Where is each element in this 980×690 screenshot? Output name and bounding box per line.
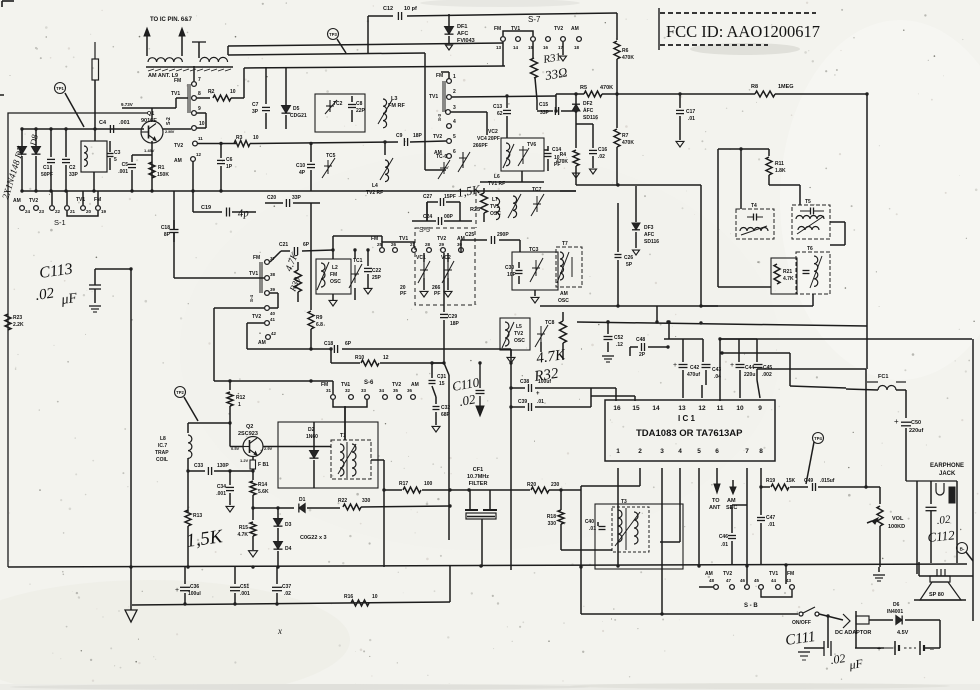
transformer T7 AM OSC (556, 247, 582, 287)
wire S5-25 up (381, 236, 383, 242)
svg-text:6: 6 (715, 448, 719, 455)
svg-text:OSC: OSC (490, 211, 501, 217)
capacitor C45 .002 (756, 339, 758, 362)
switch S-6 terminal 33 (365, 395, 370, 400)
switch S-7 terminal 18 (577, 37, 582, 42)
switch S-6 terminal 35 (397, 395, 402, 400)
switch S-5 terminal 27 (412, 248, 417, 253)
resistor R17 100 (384, 489, 402, 491)
svg-text:6.8: 6.8 (316, 322, 323, 328)
svg-text:+: + (536, 391, 540, 397)
svg-text:9016E: 9016E (141, 118, 157, 124)
wire y306 (540, 305, 813, 307)
svg-text:ANT: ANT (709, 505, 721, 511)
capacitor C18 8P (173, 220, 175, 230)
svg-text:L6: L6 (494, 174, 500, 180)
svg-text:C20: C20 (267, 195, 276, 201)
svg-text:TO: TO (712, 498, 720, 504)
wire x432 from R10 (432, 362, 444, 364)
terminal 11 TV2 (193, 141, 198, 146)
capacitor C10 4P (310, 144, 312, 163)
svg-text:S-4: S-4 (249, 295, 254, 303)
capacitor C47 .01 (760, 487, 762, 515)
svg-text:AFC: AFC (457, 31, 468, 37)
svg-text:DC ADAPTOR: DC ADAPTOR (835, 630, 871, 636)
svg-text:C34: C34 (217, 484, 226, 490)
telescopic antenna (94, 42, 96, 59)
svg-text:TV2 RF: TV2 RF (366, 190, 383, 196)
svg-text:R6: R6 (622, 48, 629, 54)
svg-text:OSC: OSC (330, 279, 341, 285)
svg-text:L5: L5 (516, 324, 522, 330)
capacitor C19 4p (226, 208, 228, 217)
wire R2 up to line C (243, 68, 245, 98)
svg-text:9: 9 (198, 106, 201, 112)
IC1 TDA1083 OR TA7613AP (605, 400, 775, 461)
svg-text:42: 42 (271, 331, 277, 336)
svg-text:220uf: 220uf (909, 428, 924, 434)
wire y185 segment (576, 184, 701, 186)
svg-text:7: 7 (198, 77, 201, 83)
svg-text:VC2: VC2 (488, 129, 498, 135)
svg-text:C18: C18 (161, 225, 170, 231)
wire pin8 node (760, 468, 762, 487)
wire FC1 feed (790, 386, 846, 388)
svg-text:15: 15 (439, 381, 445, 387)
svg-text:C7: C7 (252, 102, 259, 108)
arrow AM SEC (732, 480, 734, 487)
ferrite bead FB1 (250, 460, 256, 469)
switch S-5 bracket (382, 242, 414, 247)
svg-text:C18: C18 (324, 341, 333, 347)
resistor R30 handwritten 4.7K (295, 270, 302, 292)
node input bus (22, 128, 144, 130)
svg-text:1: 1 (453, 74, 456, 80)
svg-text:C31: C31 (437, 374, 446, 380)
resistor R13 (185, 510, 191, 526)
svg-text:.01: .01 (537, 399, 544, 405)
resistor R12 1 (229, 381, 231, 390)
wire pin7 down to S8-46 (746, 468, 748, 584)
capacitor C31 15P (431, 363, 433, 378)
switch S-5 terminal 28 (427, 248, 432, 253)
switch S-8 terminal 46 (745, 585, 750, 590)
wire S4-38 left (174, 277, 264, 279)
wire TP3 leader (337, 39, 346, 53)
svg-text:AFC: AFC (583, 108, 594, 114)
svg-text:C30: C30 (505, 265, 514, 271)
switch S-7 terminal 15 (531, 37, 536, 42)
diode D2 1N60 (313, 422, 315, 450)
wire Q1 emitter resistor R1 (151, 141, 153, 191)
svg-text:2: 2 (453, 89, 456, 95)
svg-text:12: 12 (196, 152, 202, 157)
wire Q2 collector right (263, 446, 331, 448)
svg-text:5: 5 (114, 157, 117, 163)
svg-text:C0G22 x 3: C0G22 x 3 (300, 535, 327, 541)
svg-text:DF3: DF3 (644, 225, 654, 231)
wire pin3 down (661, 468, 663, 614)
svg-text:D1: D1 (299, 497, 306, 503)
svg-text:SD116: SD116 (644, 239, 659, 245)
svg-text:μF: μF (847, 656, 864, 672)
diode DF2 AFC SD116 (574, 109, 577, 112)
svg-text:TC3: TC3 (529, 247, 539, 253)
svg-text:20PF: 20PF (488, 136, 500, 142)
svg-text:23: 23 (39, 209, 45, 214)
svg-text:100: 100 (424, 481, 433, 487)
switch S-2 terminal 9 (192, 111, 197, 116)
scan edge tick (0, 94, 4, 96)
svg-text:11: 11 (198, 136, 203, 141)
wire switch to plug (819, 614, 843, 620)
resistor R18 330 (558, 510, 564, 524)
svg-text:330: 330 (362, 498, 371, 504)
svg-text:33P: 33P (292, 195, 302, 201)
wire line B (228, 53, 425, 55)
svg-text:IN4001: IN4001 (887, 609, 903, 615)
svg-text:TV1: TV1 (490, 204, 499, 210)
svg-text:C2: C2 (69, 165, 76, 171)
svg-text:R20: R20 (527, 482, 536, 488)
switch S-7 terminal 17 (561, 37, 566, 42)
right border x972 (972, 339, 974, 621)
svg-text:C52: C52 (614, 335, 623, 341)
svg-text:C40: C40 (585, 519, 594, 525)
resistor R6 470K (616, 13, 618, 40)
ground right (878, 567, 880, 572)
svg-text:C48: C48 (636, 337, 645, 343)
svg-text:2: 2 (638, 448, 642, 455)
switch S-3 terminal 3 (446, 110, 451, 115)
svg-text:C37: C37 (282, 584, 291, 590)
svg-text:C27: C27 (423, 194, 432, 200)
resistor R9 6.8 (310, 203, 312, 310)
resistor R7 470K (616, 94, 618, 128)
resistor R3 10 / capacitor C9 18P (197, 143, 236, 145)
trimmer TC3 (512, 252, 558, 290)
svg-text:I C 1: I C 1 (678, 414, 695, 423)
capacitor C32 68P (435, 397, 437, 404)
svg-text:C39: C39 (518, 399, 527, 405)
tuner box TV6 (501, 138, 544, 171)
resistor R4 470K (575, 120, 577, 148)
resistor R25 handwritten 1.5K (481, 193, 488, 213)
svg-text:9.73V: 9.73V (121, 102, 133, 107)
svg-text:+: + (877, 646, 881, 653)
earphone jack body (906, 480, 957, 482)
svg-text:D2: D2 (308, 427, 315, 433)
svg-text:.01: .01 (721, 542, 728, 548)
capacitor C15 33P (536, 100, 538, 110)
resistor R5 470K (556, 93, 584, 95)
svg-text:EARPHONE: EARPHONE (930, 463, 964, 469)
svg-text:10: 10 (253, 135, 259, 141)
svg-text:100uf: 100uf (538, 379, 551, 385)
svg-text:PF: PF (434, 291, 440, 297)
switch S-4 terminal 38 (265, 276, 270, 281)
svg-text:TV1: TV1 (399, 236, 408, 242)
svg-text:TRAP: TRAP (155, 450, 169, 456)
svg-text:x: x (277, 626, 282, 636)
capacitor C46 .01 (731, 505, 733, 533)
svg-text:100ul: 100ul (188, 591, 201, 597)
svg-text:AM: AM (560, 291, 568, 297)
wire S4-39 to 40 (270, 292, 278, 294)
resistor R19 15K (761, 486, 770, 488)
svg-text:FCC ID: AAO1200617: FCC ID: AAO1200617 (666, 22, 820, 41)
transformer T6 (796, 252, 830, 294)
svg-text:28: 28 (425, 242, 431, 247)
svg-text:+: + (894, 417, 899, 426)
svg-text:AM: AM (705, 571, 713, 577)
svg-text:T5: T5 (805, 199, 811, 205)
switch S-4 terminal 40 (265, 306, 270, 311)
transformer T4 (736, 209, 774, 239)
svg-text:4P: 4P (299, 170, 306, 176)
varicap VC2 266PF (447, 262, 449, 278)
svg-text:TP2: TP2 (176, 390, 184, 395)
svg-text:TV1: TV1 (769, 571, 778, 577)
svg-text:T3: T3 (621, 499, 627, 505)
resistor R32 handwritten 4.7K (560, 321, 567, 343)
svg-text:C36: C36 (190, 584, 199, 590)
svg-text:.02: .02 (458, 391, 477, 409)
svg-text:.001: .001 (119, 120, 130, 126)
svg-text:44: 44 (771, 578, 777, 583)
svg-text:S-3: S-3 (437, 114, 442, 122)
coil L3 FM RF (383, 99, 387, 128)
FCC ID label box (658, 8, 660, 50)
svg-text:R17: R17 (399, 481, 408, 487)
svg-text:2SC923: 2SC923 (238, 431, 258, 437)
svg-text:AM: AM (258, 340, 266, 346)
svg-text:D8: D8 (28, 133, 40, 147)
transformer T1 (331, 440, 371, 479)
coil L4 TV2 RF (385, 160, 389, 182)
switch S-7 terminal 13 (501, 37, 506, 42)
switch S-4 terminal 37 (265, 260, 270, 265)
resistor R10 12 (331, 362, 360, 364)
wire T4 top (740, 149, 742, 209)
resistor R31 handwritten 33ohm (532, 42, 534, 58)
svg-text:L4: L4 (372, 183, 378, 189)
svg-text:TV1: TV1 (171, 91, 180, 97)
switch S-3 terminal 6 (447, 154, 452, 159)
svg-text:10: 10 (372, 594, 378, 600)
test point TP2 (175, 387, 186, 398)
capacitor C51 .001 (234, 567, 236, 584)
diode D7 (21, 129, 23, 146)
svg-text:18P: 18P (413, 133, 423, 139)
capacitor C3 5 (107, 153, 114, 155)
svg-text:R7: R7 (622, 133, 629, 139)
svg-text:35: 35 (393, 388, 399, 393)
svg-text:R1: R1 (158, 165, 165, 171)
svg-text:9: 9 (758, 405, 762, 412)
capacitor C17 .01 (679, 94, 681, 108)
svg-text:29: 29 (439, 242, 445, 247)
svg-text:10P: 10P (507, 272, 517, 278)
svg-text:.12: .12 (616, 342, 623, 348)
svg-text:R2: R2 (208, 89, 215, 95)
svg-text:4: 4 (678, 448, 682, 455)
svg-text:C3: C3 (114, 150, 121, 156)
svg-text:6P: 6P (303, 242, 310, 248)
antenna L9 lead arrows (146, 36, 148, 56)
capacitor C48 2P (630, 346, 638, 348)
switch S-3 terminal 1 (447, 79, 452, 84)
svg-text:S-2: S-2 (166, 117, 172, 125)
wire antenna to node A (95, 268, 131, 270)
switch S-1 bracket (67, 211, 98, 216)
wire y353 (722, 352, 790, 354)
resistor R15 4.7K (252, 508, 254, 520)
wire x449 down (444, 363, 449, 375)
svg-text:330: 330 (548, 521, 557, 527)
switch S-5 terminal 29 (441, 248, 446, 253)
capacitor C50 220uf (905, 390, 907, 418)
svg-text:15K: 15K (786, 478, 796, 484)
wire pin16 up (615, 388, 617, 401)
svg-text:41: 41 (270, 317, 276, 322)
switch S-2 terminal 7 (192, 82, 197, 87)
svg-text:R25: R25 (470, 207, 480, 213)
wire S4-40 left (214, 307, 264, 309)
svg-text:R12: R12 (236, 395, 245, 401)
svg-text:TV2: TV2 (174, 143, 183, 149)
svg-text:TV2: TV2 (29, 198, 38, 204)
wire Q1 collector (151, 108, 153, 121)
svg-text:130P: 130P (217, 463, 229, 469)
svg-text:AM: AM (174, 158, 182, 164)
svg-text:TDA1083 OR TA7613AP: TDA1083 OR TA7613AP (636, 428, 743, 439)
capacitor C42 470uF (682, 339, 684, 362)
svg-text:C51: C51 (240, 584, 249, 590)
svg-text:18: 18 (574, 45, 580, 50)
svg-text:R14: R14 (258, 482, 267, 488)
svg-text:45: 45 (754, 578, 760, 583)
svg-text:33P: 33P (540, 110, 550, 116)
capacitor C38 100uf (511, 387, 525, 389)
svg-text:.01: .01 (768, 522, 775, 528)
svg-text:R15: R15 (239, 525, 248, 531)
svg-text:38: 38 (270, 272, 276, 277)
svg-text:AM: AM (13, 198, 21, 204)
svg-text:L3: L3 (391, 96, 397, 102)
capacitor C112 .02 (930, 481, 932, 504)
svg-text:FM RF: FM RF (388, 103, 405, 109)
svg-text:8: 8 (198, 91, 201, 97)
coil L7 TV1 OSC (496, 198, 500, 220)
capacitor C37 .02 (276, 567, 278, 584)
svg-text:+: + (175, 587, 179, 594)
svg-text:24: 24 (25, 209, 31, 214)
svg-text:R3: R3 (236, 135, 243, 141)
svg-text:1N60: 1N60 (306, 434, 318, 440)
resistor R23 2.2K (5, 314, 11, 330)
switch S-1 terminal 23 (34, 206, 39, 211)
DC adaptor plug (843, 614, 850, 628)
svg-text:VC4: VC4 (477, 136, 487, 142)
svg-text:5P: 5P (626, 262, 633, 268)
svg-text:F B1: F B1 (258, 462, 269, 468)
capacitor C1 50PF (50, 129, 52, 157)
svg-text:TC-6: TC-6 (436, 154, 447, 160)
svg-text:S-6: S-6 (364, 380, 374, 386)
svg-text:FM: FM (253, 255, 260, 261)
svg-text:4: 4 (453, 119, 456, 125)
wire x701 down (700, 185, 702, 306)
wire pin5 down (698, 468, 700, 565)
capacitor C12 10pf (368, 15, 393, 17)
svg-text:.015uf: .015uf (820, 478, 835, 484)
svg-text:20: 20 (86, 209, 92, 214)
bus bottom y567 (8, 564, 967, 567)
switch S-1 terminal 22 (50, 206, 55, 211)
svg-text:16: 16 (543, 45, 549, 50)
svg-text:R11: R11 (775, 161, 784, 167)
resistor R8 1MEG (617, 93, 755, 95)
switch S-3 terminal 4 (447, 124, 452, 129)
wire T1 right (371, 459, 384, 461)
AM antenna coil L9 winding 1 (148, 58, 182, 62)
svg-text:TV1: TV1 (76, 197, 85, 203)
svg-text:R9: R9 (316, 315, 323, 321)
svg-text:FM: FM (321, 382, 328, 388)
svg-text:FM: FM (174, 78, 181, 84)
svg-text:B-: B- (960, 547, 965, 552)
capacitor C40 .01 (597, 522, 599, 526)
capacitor C7 3P (265, 67, 267, 104)
capacitor C39 .01 (511, 406, 525, 408)
svg-text:–: – (930, 646, 934, 653)
svg-text:C4: C4 (99, 120, 107, 126)
svg-text:TV2: TV2 (392, 382, 401, 388)
diode D6 IN4001 (869, 619, 893, 621)
svg-text:VC2: VC2 (441, 255, 451, 261)
bottom bus of input section (22, 190, 576, 192)
svg-text:13: 13 (496, 45, 502, 50)
svg-text:FM: FM (94, 197, 101, 203)
svg-text:Q1: Q1 (147, 111, 154, 117)
trimmer TC8 (540, 326, 542, 342)
switch S-2 terminal 10 (192, 126, 197, 131)
svg-text:SEC: SEC (726, 505, 737, 511)
switch S-3 terminal 2 (447, 95, 452, 100)
capacitor C20 33P (265, 202, 283, 204)
svg-text:C1: C1 (43, 165, 50, 171)
switch S-8 terminal 44 (776, 585, 781, 590)
svg-text:D3: D3 (285, 522, 292, 528)
svg-text:T7: T7 (562, 241, 568, 247)
switch S-4 wiper (259, 262, 261, 293)
svg-text:TV2: TV2 (437, 236, 446, 242)
switch S-4 terminal 39 (265, 291, 270, 296)
varicap VC1 20PF (423, 262, 425, 278)
resistor R22 330 (343, 504, 361, 510)
switch S-6 bracket (333, 400, 367, 407)
wire TP4 leader (806, 442, 814, 484)
svg-text:10: 10 (230, 89, 236, 95)
svg-text:14: 14 (513, 45, 519, 50)
svg-text:10: 10 (736, 405, 744, 412)
trimmer TC5 (327, 160, 329, 174)
transformer T3 box (595, 504, 683, 569)
svg-text:C33: C33 (194, 463, 203, 469)
wire L5 TC8 ground (510, 350, 512, 356)
svg-text:4p: 4p (237, 207, 250, 220)
